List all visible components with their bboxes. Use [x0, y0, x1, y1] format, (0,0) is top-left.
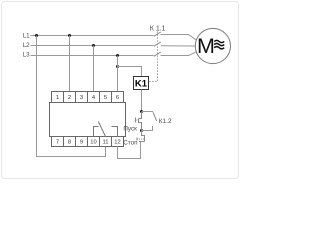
motor M1 circle: [195, 28, 230, 63]
wire L2 drop to terminal 4: [93, 46, 95, 92]
wire branch to K1 coil: [118, 67, 142, 77]
wire L3 drop to terminal 6: [117, 56, 119, 92]
terminal 1: [52, 92, 64, 103]
terminal 11: [100, 137, 112, 147]
junction dot start-branch: [140, 110, 143, 113]
terminal 6: [112, 92, 124, 103]
svg-text:9: 9: [80, 140, 83, 146]
terminal 4: [88, 92, 100, 103]
svg-text:M: M: [197, 34, 215, 58]
contact K1.2 lower wire: [142, 126, 153, 131]
linkage dashed to K1: [149, 32, 158, 82]
svg-text:1: 1: [56, 95, 59, 101]
wire K1 coil to start chain: [141, 90, 143, 112]
svg-text:К1.2: К1.2: [159, 118, 172, 125]
motor AC waves: [214, 40, 224, 42]
contact K1.1 pole 3 blade: [154, 52, 161, 56]
svg-text:10: 10: [90, 140, 96, 146]
svg-text:7: 7: [56, 140, 59, 146]
terminal 8: [64, 137, 76, 147]
junction dot L2-t4: [92, 44, 95, 47]
pushbutton Пуск operator: [135, 118, 137, 123]
wire Стоп to terminal 12: [118, 142, 141, 159]
wire L3 horizontal: [31, 55, 154, 57]
pushbutton Пуск blade: [138, 119, 140, 123]
terminal 3: [76, 92, 88, 103]
pushbutton Стоп bottom tick: [139, 141, 145, 143]
wire L1 drop to terminal 2: [69, 36, 71, 92]
wire L1 to terminal 11 via left side: [37, 36, 106, 157]
wire L2 horizontal: [31, 45, 154, 47]
svg-text:К 1.1: К 1.1: [150, 25, 166, 32]
junction dot K1-branch: [116, 65, 119, 68]
svg-text:6: 6: [116, 95, 119, 101]
internal contact fixed from terminal 10: [94, 127, 99, 137]
svg-text:8: 8: [68, 140, 71, 146]
terminal 10: [88, 137, 100, 147]
svg-text:Пуск: Пуск: [123, 125, 137, 132]
contact K1.2 blade: [153, 112, 157, 121]
internal contact fixed from terminal 12: [112, 127, 118, 137]
terminal 5: [100, 92, 112, 103]
device body U1: [50, 103, 126, 137]
svg-text:L3: L3: [23, 51, 30, 58]
wire L1 horizontal: [31, 35, 154, 37]
contact K1.2 branch upper wire: [142, 111, 154, 113]
wire L3 to motor: [161, 52, 197, 56]
junction dot L1-left: [35, 34, 38, 37]
terminal 2: [64, 92, 76, 103]
relay coil K1 box: [134, 77, 149, 90]
junction dot L3-t6: [116, 54, 119, 57]
svg-text:Стоп: Стоп: [123, 140, 137, 147]
wire L2 to motor: [161, 45, 196, 47]
terminal 12: [112, 137, 124, 147]
junction dot L1-t2: [68, 34, 71, 37]
terminal 7: [52, 137, 64, 147]
pushbutton Стоп operator: [136, 138, 138, 141]
contact K1.1 pole 2 blade: [154, 42, 161, 46]
svg-text:L2: L2: [23, 42, 30, 49]
junction dot latch-return: [140, 129, 143, 132]
pushbutton Пуск wire top: [139, 112, 142, 119]
pushbutton Пуск wire bottom: [138, 123, 142, 131]
svg-text:K1: K1: [135, 79, 148, 90]
pushbutton Стоп wire top and blade: [142, 131, 145, 142]
svg-text:2: 2: [68, 95, 71, 101]
svg-text:12: 12: [114, 140, 120, 146]
svg-text:L1: L1: [23, 33, 30, 40]
svg-text:3: 3: [80, 95, 83, 101]
terminal 9: [76, 137, 88, 147]
svg-text:5: 5: [104, 95, 107, 101]
internal contact blade to terminal 11: [98, 122, 105, 137]
wire L1 to motor: [161, 35, 197, 41]
contact K1.1 pole 1 blade: [154, 32, 161, 36]
svg-text:11: 11: [102, 140, 108, 146]
